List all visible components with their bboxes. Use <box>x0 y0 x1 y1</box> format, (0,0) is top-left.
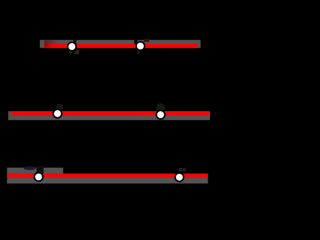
point D <box>156 110 166 120</box>
wire maroon tint on track 1 left <box>44 40 58 44</box>
wire gray track 2 <box>8 112 211 120</box>
point F <box>174 172 184 182</box>
wire gray track 1 <box>40 40 200 48</box>
wire red line 3 <box>8 174 208 178</box>
node label streak below A left <box>69 50 73 54</box>
wire gray track 3 lower <box>7 175 208 183</box>
point C <box>52 109 62 119</box>
node label patch right of B <box>144 39 149 42</box>
wire red line 2 <box>12 112 211 116</box>
point A <box>67 42 77 52</box>
wire red line 1 start fade <box>45 44 53 48</box>
node label blob above F <box>178 168 186 172</box>
node label blob above C <box>55 104 63 110</box>
node label slot above E <box>37 166 44 174</box>
node label streak below A right <box>74 50 79 54</box>
node label blob navy <box>24 167 36 170</box>
point B <box>135 41 145 51</box>
point E <box>34 172 44 182</box>
wire red line 1 <box>45 44 198 48</box>
wire gray track 3 upper <box>7 168 63 176</box>
node label slot above B <box>134 40 137 44</box>
node label streak below B <box>137 50 139 55</box>
node label blob above D <box>156 103 166 110</box>
node label slot above A <box>74 40 77 44</box>
